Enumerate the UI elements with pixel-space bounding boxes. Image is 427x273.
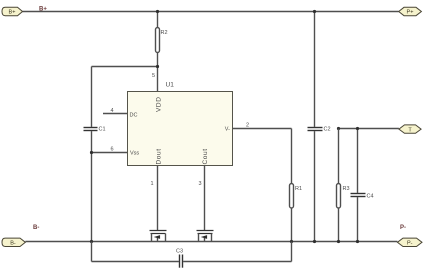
svg-text:VDD: VDD — [156, 96, 163, 112]
svg-text:C2: C2 — [324, 127, 331, 133]
junction dot C2 rail — [313, 240, 316, 243]
svg-text:R2: R2 — [161, 30, 168, 36]
svg-text:C3: C3 — [176, 249, 183, 255]
resistor R3 — [337, 184, 350, 209]
svg-text:4: 4 — [111, 108, 114, 114]
wire lower loop right horizontal — [183, 261, 291, 263]
junction dot R1 rail — [290, 240, 293, 243]
svg-text:B-: B- — [10, 241, 16, 247]
svg-text:V-: V- — [225, 127, 230, 133]
svg-text:P-: P- — [407, 241, 413, 247]
svg-text:Cout: Cout — [202, 148, 209, 164]
junction dot C2 top rail — [313, 10, 316, 13]
wire R2 bottom lead to junction — [157, 53, 159, 67]
wire bottom rail B- to P- — [25, 241, 397, 243]
wire C4 lower to rail — [357, 197, 359, 241]
wire left vertical upper (to C1) — [91, 67, 93, 127]
svg-text:3: 3 — [199, 181, 202, 187]
wire C4 vertical upper — [357, 129, 359, 193]
transistor Q2 — [197, 231, 214, 242]
wire lower loop right vertical up to rail — [291, 242, 293, 262]
wire R3 upper lead — [338, 129, 340, 185]
wire C2 lower to rail — [314, 131, 316, 241]
svg-text:1: 1 — [151, 181, 154, 187]
svg-text:B+: B+ — [39, 7, 47, 13]
junction dot left vertical at bottom rail — [90, 240, 93, 243]
resistor R2 — [156, 28, 168, 53]
svg-text:Vss: Vss — [130, 151, 139, 157]
connector P- — [397, 238, 422, 246]
wire R2 top lead from top rail — [157, 12, 159, 28]
junction dot R2 top rail — [156, 10, 159, 13]
wire pin 4 lead — [103, 113, 128, 115]
wire lower loop left horizontal — [92, 261, 179, 263]
svg-text:R3: R3 — [343, 186, 350, 192]
transistor Q1 — [150, 231, 167, 242]
junction dot pin6 / left vertical — [90, 151, 93, 154]
svg-text:Dout: Dout — [156, 148, 163, 164]
wire pin2 down to R1 — [291, 129, 293, 185]
wire horizontal from junction to left branch — [92, 66, 158, 68]
svg-text:2: 2 — [246, 123, 249, 129]
wire pin 3 lead down from U1 — [204, 166, 206, 231]
junction dot R3 top — [337, 127, 340, 130]
svg-text:6: 6 — [111, 147, 114, 153]
junction dot at R2 bottom — [156, 65, 159, 68]
wire pin 5 lead into U1 — [157, 67, 159, 92]
op-amp U1 body — [128, 82, 233, 166]
wire pin 6 lead — [92, 152, 128, 154]
capacitor C2 — [308, 127, 331, 133]
wire pin 2 lead to the right — [233, 128, 292, 130]
wire lower loop left vertical — [91, 242, 93, 262]
svg-text:DC: DC — [130, 113, 138, 119]
svg-text:B+: B+ — [9, 10, 16, 16]
wire T branch horizontal — [339, 128, 399, 130]
junction dot C4 rail — [356, 240, 359, 243]
svg-text:C4: C4 — [367, 194, 374, 200]
svg-text:B-: B- — [33, 225, 39, 231]
wire R1 bottom to rail — [291, 208, 293, 242]
wire pin 1 lead down from U1 — [157, 166, 159, 231]
svg-text:C1: C1 — [99, 127, 106, 133]
junction dot C4 top — [356, 127, 359, 130]
capacitor C3 — [176, 249, 183, 268]
junction dot R3 rail — [337, 240, 340, 243]
connector B+ — [2, 7, 23, 15]
connector T — [399, 125, 421, 133]
svg-text:P+: P+ — [407, 10, 414, 16]
wire C2 vertical from top rail — [314, 12, 316, 127]
svg-text:U1: U1 — [166, 82, 175, 89]
svg-text:P-: P- — [400, 225, 406, 231]
resistor R1 — [290, 184, 303, 209]
wire left vertical lower (C1 to bottom rail) — [91, 131, 93, 241]
connector P+ — [399, 7, 422, 15]
wire top rail B+ to P+ — [23, 11, 399, 13]
capacitor C1 — [84, 127, 106, 133]
svg-text:5: 5 — [152, 73, 155, 79]
svg-text:R1: R1 — [295, 186, 302, 192]
connector B- — [2, 238, 25, 246]
capacitor C4 — [351, 194, 374, 200]
wire R3 bottom to rail — [338, 208, 340, 242]
